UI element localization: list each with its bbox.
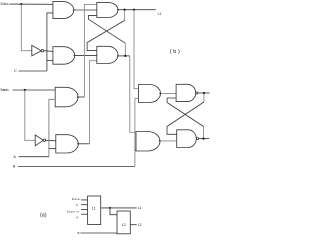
wire B riser <box>135 98 139 166</box>
svg-text:L1: L1 <box>138 206 142 210</box>
wire A riser <box>49 99 55 156</box>
svg-text:A: A <box>76 216 78 220</box>
wire G4 out <box>199 138 210 140</box>
wire Data horizontal <box>10 3 54 5</box>
and-gate G2 latch1 bottom <box>97 46 118 63</box>
wire Scan-in horizontal <box>13 89 56 91</box>
wire L1 to L2 step (a) <box>110 208 117 215</box>
svg-text:(b): (b) <box>170 49 180 55</box>
wire cross-couple G4 out to G3 bottom input <box>203 127 205 139</box>
wire C riser <box>47 13 53 71</box>
wire Data vertical to inverter I1 <box>21 4 32 51</box>
wire I2 out <box>46 139 56 142</box>
node G3 out junction <box>203 92 205 94</box>
svg-text:L2: L2 <box>138 223 142 227</box>
inverter I1 <box>32 45 42 56</box>
wire G2 out down to AND6 top input <box>130 56 136 132</box>
node junction (a) <box>109 207 111 209</box>
svg-text:B: B <box>78 231 80 235</box>
and-gate G1 latch1 top <box>97 2 118 17</box>
wire B (a) <box>80 232 117 234</box>
wire I1 out <box>44 50 53 53</box>
and-gate A4 <box>56 135 79 153</box>
svg-text:C: C <box>76 203 79 207</box>
block L1 <box>88 196 101 225</box>
svg-text:Scan in: Scan in <box>67 210 80 214</box>
svg-text:Scan-in: Scan-in <box>0 88 8 92</box>
svg-text:(a): (a) <box>40 212 47 218</box>
and-gate A6 <box>136 132 160 152</box>
block L2 <box>117 211 130 234</box>
wire cross-couple G1 out to G2 top input <box>124 10 126 20</box>
node Scan-in junction <box>24 89 26 91</box>
wire B branch to AND6 bottom input <box>135 149 136 151</box>
wire A1 out <box>74 9 97 11</box>
nand-gate G3 latch2 top <box>176 84 196 101</box>
wire A2 out <box>75 54 97 56</box>
and-gate A2 <box>53 47 75 64</box>
wire Data stub (a) <box>81 199 88 201</box>
wire riser A4 out up to gate G2 bottom input <box>90 61 97 144</box>
inverter I2 <box>35 135 43 146</box>
wire A stub (a) <box>81 213 88 215</box>
wire B horizontal <box>18 166 135 168</box>
node G4 out junction <box>202 138 204 140</box>
wire Scan-in vertical to inverter I2 <box>25 90 35 140</box>
svg-text:A: A <box>13 155 16 159</box>
wire L1 output (a) <box>101 207 137 209</box>
nand-gate G4 latch2 bottom <box>177 130 197 148</box>
svg-text:C: C <box>14 69 17 73</box>
wire A6 out <box>160 140 177 142</box>
wire L2 output (a) <box>130 224 136 226</box>
svg-text:B: B <box>13 165 16 169</box>
wire A3 out to riser <box>78 96 84 98</box>
wire C branch to AND2 <box>47 60 53 62</box>
svg-text:L2: L2 <box>122 223 126 227</box>
wire A4 out to riser <box>78 143 89 145</box>
and-gate A3 <box>55 87 78 107</box>
node G1 out junction 1 <box>124 9 126 11</box>
svg-text:L1: L1 <box>158 12 162 16</box>
svg-text:Data: Data <box>72 197 80 201</box>
and-gate A5 <box>139 85 161 103</box>
wire A horizontal <box>19 156 49 158</box>
wire cross-couple G2 out to G1 bottom input <box>124 43 126 55</box>
wire G2 out <box>118 55 130 57</box>
node Data junction <box>20 3 22 5</box>
svg-text:L1: L1 <box>92 207 96 211</box>
wire C stub (a) <box>81 204 88 206</box>
svg-text:Data: Data <box>1 2 9 6</box>
wire Scan in stub (a) <box>81 209 88 211</box>
wire riser A3 out up to gate G1 top input <box>84 4 96 97</box>
wire G1 out to L1 <box>118 9 156 11</box>
node G1 out junction 2 <box>133 9 135 11</box>
wire C horizontal <box>19 70 47 72</box>
gate tip specks <box>73 9 161 145</box>
wire G1 out down to AND5 top input <box>134 10 139 89</box>
wire G3 out <box>198 92 210 94</box>
node G2 out junction <box>124 55 126 57</box>
and-gate A1 <box>53 2 74 19</box>
wire A5 out <box>161 93 177 95</box>
wire cross-couple G3 out to G4 top input <box>203 94 205 103</box>
wire A branch to AND4 <box>49 148 56 150</box>
